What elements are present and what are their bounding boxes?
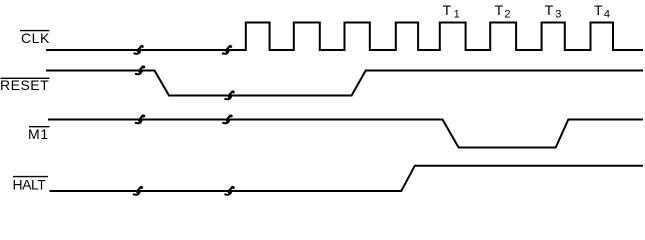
svg-text:M1: M1 (28, 126, 49, 142)
svg-text:3: 3 (555, 8, 561, 20)
label CLK overline (20, 30, 50, 32)
svg-text:T: T (495, 2, 504, 18)
svg-text:4: 4 (604, 8, 610, 20)
svg-text:T: T (594, 2, 603, 18)
break on M1 wire 2 (223, 115, 231, 123)
break on HALT wire 2 (225, 187, 233, 195)
break on M1 wire 1 (136, 115, 144, 123)
svg-text:1: 1 (454, 8, 460, 20)
svg-text:T: T (545, 2, 554, 18)
svg-text:RESET: RESET (0, 77, 49, 93)
svg-text:HALT: HALT (13, 177, 47, 193)
svg-text:CLK: CLK (21, 30, 50, 46)
label M1 overline (29, 126, 50, 128)
wire CLK waveform (46, 23, 643, 51)
break on CLK wire 2 (223, 46, 231, 54)
svg-text:T: T (443, 2, 452, 18)
wire M1 waveform (48, 120, 643, 148)
break on CLK wire 1 (134, 46, 142, 54)
label RESET overline (1, 77, 50, 79)
wire RESET waveform (46, 71, 643, 96)
break on RESET wire 2 (225, 91, 233, 99)
break on HALT wire 1 (134, 187, 142, 195)
wire HALT waveform (50, 166, 644, 191)
break on RESET wire 1 (136, 66, 144, 74)
label HALT overline (13, 176, 48, 178)
svg-text:2: 2 (504, 8, 510, 20)
